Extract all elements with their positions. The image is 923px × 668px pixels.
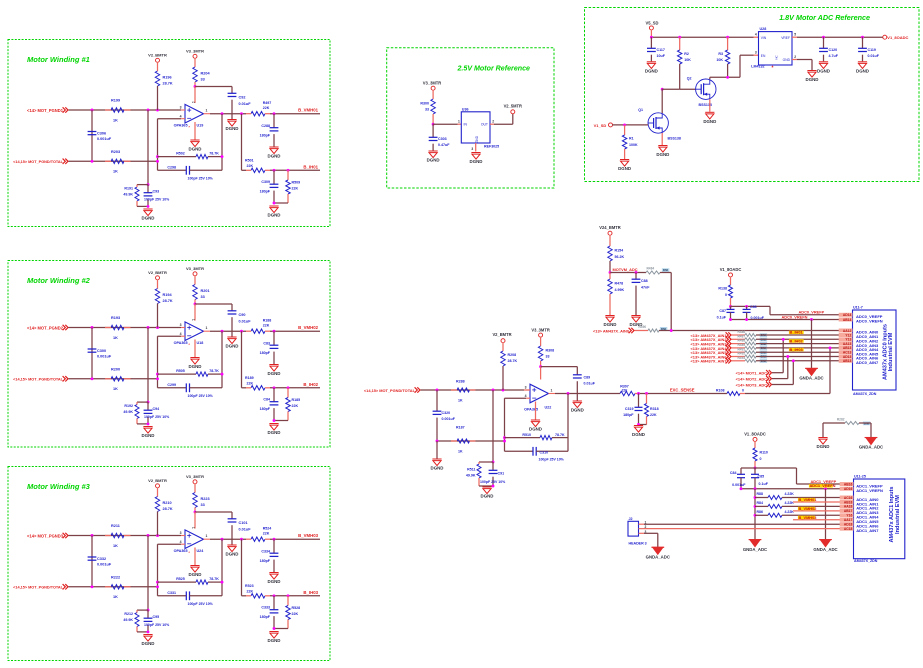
svg-text:BSS138: BSS138 (668, 137, 681, 141)
power symbol V1_8OADC adc1 (744, 432, 766, 448)
junction V+ node (194, 511, 197, 514)
ground DGND under RC pair (142, 635, 155, 647)
green border box 1.8V Motor ADC Reference (585, 8, 920, 182)
junction at filter cap 1 (273, 112, 276, 115)
net label B_VMH03 (298, 533, 318, 538)
resistor R487 DNI gray AIN2 (732, 334, 846, 341)
svg-text:28.7K: 28.7K (163, 507, 173, 511)
capacitor C300 0.001uF (88, 328, 112, 379)
wire V+ node to bypass cap (195, 304, 232, 321)
svg-text:100pF 25V 10%: 100pF 25V 10% (188, 602, 214, 606)
capacitor C117 10uF (647, 37, 666, 61)
svg-text:V1_8OADC: V1_8OADC (744, 432, 766, 437)
wire Q1 source to ground (661, 133, 663, 145)
junction R2 (678, 36, 681, 39)
capacitor C288 180pF (260, 114, 279, 147)
svg-text:1K: 1K (113, 595, 118, 599)
resistor R211 1K (105, 524, 131, 548)
wire op-amp output (210, 330, 246, 332)
junction C86 top (745, 305, 748, 308)
wire feedback to output junction (221, 331, 224, 388)
svg-text:ADC1_AIN7: ADC1_AIN7 (856, 528, 879, 533)
input port AM437X_AIN6 (691, 354, 731, 360)
junction on wire2 at C cap (91, 585, 94, 588)
capacitor C88 47nF (632, 273, 651, 316)
transistor Q2 BSS138 (687, 76, 716, 107)
resistor R208 28.7K (501, 351, 518, 390)
REF3025 GND pin to ground (475, 143, 477, 152)
svg-text:V3_3MTR: V3_3MTR (186, 266, 204, 271)
junction C119 (861, 36, 864, 39)
svg-text:ADC1_VREFN: ADC1_VREFN (810, 483, 836, 488)
svg-text:1K: 1K (458, 449, 463, 453)
junction AIN0 R484 (670, 329, 673, 332)
ground DGND left (431, 459, 444, 471)
resistor R502 78.7K feedback (158, 152, 223, 159)
svg-text:C86: C86 (750, 305, 757, 309)
svg-text:C119: C119 (868, 48, 876, 52)
svg-text:1K: 1K (113, 544, 118, 548)
junction C319 (637, 392, 640, 395)
svg-text:R208: R208 (508, 353, 517, 357)
svg-text:V2_BMTR: V2_BMTR (148, 270, 167, 275)
green border box 2.5V Motor Reference (387, 48, 554, 188)
net label B_VMH02 wire (793, 506, 846, 511)
svg-text:GNDA_ADC: GNDA_ADC (813, 547, 837, 552)
svg-text:78.7K: 78.7K (209, 577, 219, 581)
wire feedback to output junction (221, 114, 224, 171)
input port <14> MOT_PGND3 (27, 533, 68, 539)
title 1.8V Motor ADC Reference (779, 13, 870, 22)
resistor R525 78.7K feedback (158, 577, 223, 584)
svg-text:49.9K: 49.9K (123, 193, 133, 197)
junction wire1 x157.5 (156, 534, 159, 537)
input port AM437X_AIN1 (691, 332, 731, 338)
svg-text:B_VMH01: B_VMH01 (298, 108, 318, 113)
junction wire1 x148 (147, 326, 150, 329)
svg-text:DGND: DGND (226, 126, 239, 131)
wire J2 pin1 to AIN6 (644, 523, 846, 525)
power symbol V2_BMTR (148, 53, 167, 72)
wire to output net 2 (270, 595, 320, 597)
junction wire1 x148 (147, 534, 150, 537)
svg-text:DGND: DGND (817, 68, 830, 73)
IC U11-7 AM437x ADC0 Inputs (839, 306, 896, 396)
svg-text:C92: C92 (239, 96, 246, 100)
svg-text:C320: C320 (442, 411, 451, 415)
svg-text:U24: U24 (197, 549, 205, 553)
svg-text:R3: R3 (718, 52, 723, 56)
svg-text:AA18: AA18 (844, 505, 853, 509)
svg-text:U19: U19 (197, 124, 204, 128)
wire lower branch vertical (242, 114, 247, 171)
wire join RC pair bottom (137, 205, 149, 208)
input port MOT_PGND/TOTAL (13, 584, 68, 590)
junction RC pair mid top (492, 461, 495, 464)
svg-text:C288: C288 (261, 124, 270, 128)
junction filter res 2 (287, 386, 290, 389)
svg-text:3: 3 (180, 531, 182, 535)
wire V+ node to bypass cap (195, 512, 232, 529)
resistor R191 49.9K (123, 185, 148, 207)
resistor R510 78.7K feedback (505, 433, 569, 440)
ground DGND under bypass cap (226, 545, 239, 557)
title Motor Winding #3 (27, 482, 91, 491)
svg-text:C88: C88 (641, 279, 648, 283)
junction on wire1 at C cap (91, 326, 94, 329)
wire input1 to op-amp pin3 (69, 109, 182, 111)
svg-text:R212: R212 (124, 612, 133, 616)
svg-text:180pF: 180pF (260, 351, 271, 355)
svg-text:0.001uF: 0.001uF (732, 483, 746, 487)
svg-text:OPA365: OPA365 (174, 124, 188, 128)
svg-text:OUT: OUT (481, 123, 488, 127)
ground DGND under op-amp (189, 566, 202, 578)
junction R88 (754, 496, 757, 499)
svg-text:2.5V Motor Reference: 2.5V Motor Reference (456, 65, 530, 73)
junction R318 (645, 392, 648, 395)
wire to output net 2 (270, 169, 320, 171)
net V1_SD input (594, 123, 648, 128)
svg-text:C94: C94 (153, 407, 160, 411)
wire to output net 1 (270, 113, 320, 115)
svg-text:78.7K: 78.7K (555, 433, 565, 437)
svg-text:R200: R200 (111, 367, 120, 371)
wire U28 GND pin to ground (792, 60, 812, 71)
resistor R200 1K (105, 367, 131, 391)
resistor R108 0 (716, 389, 745, 396)
svg-text:R191: R191 (124, 187, 133, 191)
wire lower input (437, 440, 505, 442)
svg-text:V1_8OADC: V1_8OADC (887, 35, 908, 40)
wire exc RC join (637, 423, 646, 426)
wire exc to AIN4 (745, 348, 830, 394)
wire ADC1 VREFN (740, 487, 846, 490)
svg-text:3: 3 (180, 106, 182, 110)
junction output lower branch tap (240, 112, 243, 115)
ground DGND under RC pair (142, 427, 155, 439)
ground DGND under Q2 (703, 112, 716, 124)
junction output lower branch tap (240, 538, 243, 541)
svg-text:0.001uF: 0.001uF (97, 137, 112, 141)
svg-text:R201: R201 (201, 289, 210, 293)
resistor R501 22K lower (245, 159, 270, 173)
ground DGND under C303 (427, 151, 440, 163)
junction wire1 x148 (147, 109, 150, 112)
svg-text:R318: R318 (650, 407, 659, 411)
junction filter cap 2 (273, 169, 276, 172)
svg-text:R188: R188 (263, 318, 272, 322)
junction on wire2 at C cap (91, 377, 94, 380)
svg-text:Motor Winding #3: Motor Winding #3 (27, 482, 91, 491)
resistor R492 DNI gray AIN6 (732, 352, 846, 359)
svg-text:33: 33 (201, 503, 205, 507)
junction RC pair top (147, 401, 150, 404)
resistor R189 22K lower (245, 376, 270, 390)
resistor R196 28.7K (155, 71, 173, 110)
junction feedback R (156, 373, 159, 376)
resistor R203 1K (105, 150, 131, 174)
wire to output net 2 (270, 387, 320, 389)
svg-text:C309: C309 (261, 180, 270, 184)
svg-text:180pF: 180pF (623, 413, 634, 417)
svg-text:R192: R192 (124, 404, 133, 408)
svg-text:C83: C83 (263, 342, 270, 346)
svg-text:100pF 25V 10%: 100pF 25V 10% (144, 415, 170, 419)
capacitor C92 0.01uF bypass (228, 87, 252, 120)
transistor Q1 BSS138 (638, 108, 681, 141)
svg-text:DGND: DGND (226, 552, 239, 557)
svg-text:R88: R88 (757, 492, 763, 496)
svg-text:AD18: AD18 (844, 523, 853, 527)
svg-text:3: 3 (471, 147, 473, 151)
resistor R187 1K (451, 426, 476, 454)
svg-text:GNDA_ADC: GNDA_ADC (859, 445, 883, 450)
capacitor C91 100pF25V10% (480, 462, 506, 486)
IC U28 LM4132 (751, 27, 796, 72)
wire input2 (69, 160, 158, 162)
svg-text:180pF: 180pF (260, 190, 271, 194)
svg-text:R528: R528 (292, 606, 301, 610)
svg-text:V2_BMTR: V2_BMTR (492, 332, 511, 337)
title 2.5V Motor Reference (456, 65, 530, 73)
wire pin4 feedback (505, 398, 527, 451)
junction RC pair top (147, 609, 150, 612)
svg-text:22K: 22K (247, 164, 254, 168)
wire op-amp output (210, 538, 246, 540)
svg-text:28.7K: 28.7K (508, 359, 518, 363)
junction on wire1 at C cap (91, 109, 94, 112)
wire lower branch vertical (242, 539, 247, 596)
svg-text:DGND: DGND (189, 147, 202, 152)
svg-text:C331: C331 (167, 591, 176, 595)
svg-text:DGND: DGND (806, 77, 819, 82)
svg-text:DGND: DGND (268, 638, 281, 643)
svg-text:VIN: VIN (761, 36, 767, 40)
svg-text:78.7K: 78.7K (209, 369, 219, 373)
net label B_IH02 (789, 338, 804, 343)
svg-text:DGND: DGND (571, 408, 584, 413)
resistor R484 DNI gray (646, 267, 671, 331)
svg-text:22K: 22K (292, 187, 299, 191)
input port AM437X_AIN3 (691, 341, 731, 347)
resistor R282 DNI gray (823, 418, 871, 437)
wire MOT1_ADC to ADC (772, 338, 785, 373)
svg-text:100pF 25V 10%: 100pF 25V 10% (480, 480, 506, 484)
title Motor Winding #1 (27, 55, 90, 64)
junction C88 (635, 271, 638, 274)
resistor R524 22K output (246, 526, 271, 541)
resistor R478 4.99K (608, 273, 625, 316)
svg-text:DGND: DGND (268, 213, 281, 218)
svg-text:B_VMH02: B_VMH02 (799, 506, 818, 511)
junction filter cap 2 (273, 594, 276, 597)
svg-text:C120: C120 (829, 48, 838, 52)
IC U36 REF3025 (458, 107, 499, 151)
ground DGND lower filter (268, 632, 281, 644)
svg-text:DGND: DGND (268, 430, 281, 435)
svg-text:10K: 10K (716, 58, 723, 62)
svg-text:V1_SD: V1_SD (594, 123, 607, 128)
junction wire1 x157.5 (156, 109, 159, 112)
svg-text:AC18: AC18 (844, 527, 853, 531)
svg-text:C332: C332 (97, 557, 106, 561)
svg-text:0.01uF: 0.01uF (868, 54, 880, 58)
net label B_IH01 (789, 330, 804, 335)
svg-text:0: 0 (760, 457, 762, 461)
svg-text:V2_BMTR: V2_BMTR (148, 478, 167, 483)
wire VREFN to GNDA (811, 320, 813, 369)
svg-text:B_IH03: B_IH03 (790, 347, 804, 352)
power symbol V3_3MTR (186, 266, 204, 285)
wire MOT3_ADC to ADC (772, 359, 795, 384)
wire Q2 source to ground (709, 99, 711, 112)
junction wire2 join (156, 585, 159, 588)
ground DGND under C88 (630, 316, 643, 328)
svg-text:4.22K: 4.22K (785, 510, 795, 514)
svg-text:R502: R502 (176, 152, 185, 156)
svg-text:v+: v+ (192, 101, 195, 104)
junction R86 (754, 514, 757, 517)
capacitor C93 100pF25V10% (144, 185, 171, 207)
wire down to RC pair (147, 110, 149, 185)
power symbol V3_3MTR ref (423, 81, 441, 100)
wire exc sense (640, 393, 727, 395)
ground DGND under bypass cap (226, 120, 239, 132)
junction fb R510 (503, 436, 506, 439)
op-amp U22 V- to ground (535, 402, 537, 420)
svg-text:B_IH02: B_IH02 (790, 338, 804, 343)
wire middle amp input (421, 389, 531, 391)
svg-text:R185: R185 (292, 398, 301, 402)
svg-text:22K: 22K (263, 106, 270, 110)
svg-text:C299: C299 (167, 383, 176, 387)
wire VREFN to GNDA adc1 mid (754, 489, 756, 540)
capacitor C319 180pF (623, 394, 642, 425)
svg-text:LM4132: LM4132 (751, 65, 764, 69)
capacitor C334 180pF (260, 539, 279, 572)
capacitor C84 180pF (260, 388, 279, 421)
svg-text:DNI: DNI (663, 268, 668, 272)
svg-text:49.9K: 49.9K (123, 618, 133, 622)
wire input2 (69, 586, 158, 588)
svg-text:DGND: DGND (856, 68, 869, 73)
svg-text:22K: 22K (622, 389, 629, 393)
resistor R194 28.7K (155, 289, 173, 328)
input port MOT_PGND/TOTAL (13, 376, 68, 382)
svg-text:<14,15> MOT_PGND/TOTAL: <14,15> MOT_PGND/TOTAL (13, 586, 64, 590)
svg-text:DGND: DGND (268, 579, 281, 584)
svg-text:100pF 25V 10%: 100pF 25V 10% (188, 394, 214, 398)
svg-text:v+: v+ (192, 527, 195, 530)
svg-text:R187: R187 (456, 426, 465, 430)
svg-text:ADC0_VREFN: ADC0_VREFN (856, 319, 883, 324)
input port <14> MOT_PGND2 (27, 325, 68, 331)
resistor R154 56.2K (608, 246, 625, 273)
svg-text:AB14: AB14 (843, 318, 852, 322)
ground DGND under op-amp (189, 140, 202, 152)
feedback vertical (567, 394, 569, 452)
capacitor C119 0.01uF (858, 37, 880, 61)
svg-text:Y16: Y16 (846, 514, 852, 518)
svg-text:V3_3MTR: V3_3MTR (186, 49, 204, 54)
svg-text:U36: U36 (462, 107, 469, 111)
svg-text:R505: R505 (176, 369, 185, 373)
svg-text:C333: C333 (261, 606, 270, 610)
ground DGND under C119 (856, 62, 869, 74)
wire op-amp output (210, 113, 246, 115)
svg-text:C89: C89 (584, 376, 591, 380)
svg-text:C84: C84 (730, 471, 737, 475)
resistor R199 1K (105, 99, 131, 123)
svg-text:0.47uF: 0.47uF (438, 143, 450, 147)
svg-text:R497: R497 (263, 101, 272, 105)
power symbol V5_SD (646, 20, 659, 37)
svg-text:1K: 1K (113, 118, 118, 122)
svg-text:33: 33 (425, 108, 429, 112)
net label EXC_SENSE (670, 388, 695, 393)
resistor R528 22K to ground (286, 596, 300, 629)
svg-text:4.22K: 4.22K (785, 492, 795, 496)
input port AM437X_AIN7 (691, 358, 731, 364)
wire input2 (69, 378, 158, 380)
svg-text:0.001uF: 0.001uF (97, 355, 112, 359)
power symbol V24_BMTR (599, 225, 620, 246)
resistor R509 22K to ground (286, 170, 300, 203)
svg-text:49.9K: 49.9K (466, 474, 476, 478)
resistor R491 DNI gray AIN5 (732, 347, 846, 354)
svg-text:R490: R490 (639, 325, 647, 329)
green border box Motor Winding #2 (8, 261, 330, 448)
ground DGND under R1 (618, 160, 631, 172)
svg-text:180pF: 180pF (260, 134, 271, 138)
svg-text:<14,15> MOT_PGND/TOTAL: <14,15> MOT_PGND/TOTAL (13, 378, 64, 382)
input port MOT3_ADC (736, 382, 772, 388)
ground DGND under bypass cap (226, 337, 239, 349)
svg-text:R525: R525 (176, 577, 185, 581)
junction 2.5V input node (432, 123, 435, 126)
wire join RC pair bottom (137, 422, 149, 425)
svg-text:R204: R204 (201, 72, 211, 76)
wire join lower filter (273, 419, 288, 422)
svg-text:OPA365: OPA365 (174, 549, 188, 553)
svg-text:AB17: AB17 (844, 509, 853, 513)
svg-text:B_VMH01: B_VMH01 (799, 497, 818, 502)
svg-text:IN: IN (464, 123, 468, 127)
resistor R300 33 (420, 99, 435, 124)
power symbol V2_5MTR (504, 103, 522, 114)
ground DGND under C89 (571, 401, 584, 413)
svg-text:<14> MOT_PGND2: <14> MOT_PGND2 (27, 325, 64, 330)
svg-text:DGND: DGND (142, 216, 155, 221)
svg-text:GNDA_ADC: GNDA_ADC (743, 547, 767, 552)
svg-text:V2_BMTR: V2_BMTR (148, 53, 167, 58)
svg-text:22K: 22K (292, 612, 299, 616)
svg-text:R193: R193 (111, 316, 120, 320)
svg-text:AB13: AB13 (843, 359, 852, 363)
resistor R2 10K (678, 37, 692, 89)
junction on wire1 at C cap (91, 534, 94, 537)
capacitor C94 100pF25V10% (144, 402, 171, 424)
capacitor C303 0.47uF (429, 124, 450, 150)
svg-text:<14> MOT3_ADC: <14> MOT3_ADC (736, 382, 768, 387)
svg-text:4.99K: 4.99K (615, 288, 625, 292)
IC U11-25 AM437x ADC1 Inputs (840, 475, 905, 563)
wire join RC pair bottom (137, 630, 149, 633)
svg-text:1: 1 (206, 326, 208, 330)
svg-text:DGND: DGND (142, 433, 155, 438)
net label B_IH02 (303, 382, 318, 387)
